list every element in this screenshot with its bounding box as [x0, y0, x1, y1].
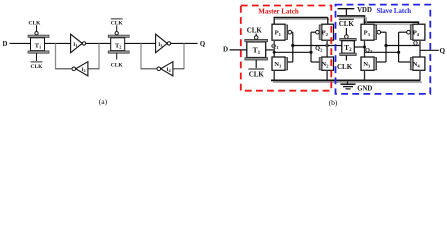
- master latch dashed border: [241, 6, 331, 91]
- wire gate line column2 (P2,N2 gates): [311, 31, 316, 33]
- wire gate line column1 (P1,N1 gates): [292, 31, 293, 33]
- wire T2b output to Q3 stem: [354, 46, 364, 48]
- wire Q1 stem (P1 drain to N1 drain): [273, 40, 275, 57]
- wire tap down to feedback loop 2 input: [183, 43, 185, 69]
- wire N4 source to ground rail: [419, 70, 421, 79]
- wire T1 to I1: [45, 42, 71, 44]
- wire node Q1 cross wire (lower, to P2/N2 gates): [274, 51, 311, 53]
- svg-text:T2: T2: [115, 43, 121, 50]
- transmission gate T2: [108, 25, 129, 59]
- wire tap down to feedback loop 1: [55, 43, 57, 69]
- svg-text:CLK: CLK: [339, 20, 355, 28]
- wire N1 source to ground rail: [273, 70, 275, 79]
- junction dot Q4-to-gates3: [384, 44, 387, 47]
- label CLKbar (T2b top): [339, 18, 354, 20]
- junction dot Q2-to-gates1: [291, 44, 294, 47]
- junction dot Q1-to-gates2: [309, 51, 312, 54]
- wire gate line column3 (P3,N3 gates): [381, 31, 386, 33]
- feedback inverter I2: [56, 62, 100, 76]
- VDD tap bar: [338, 8, 355, 10]
- label CLKbar (T1 bottom): [31, 61, 43, 63]
- feedback inverter I4: [141, 62, 184, 76]
- pmos P3: [361, 22, 381, 40]
- wire node Q2 cross wire (upper, to T2b input): [293, 45, 342, 47]
- GND rail: [273, 81, 422, 83]
- svg-text:CLK: CLK: [247, 26, 263, 34]
- wire Q2 stem (P2 drain to N2 drain): [326, 40, 328, 57]
- svg-text:I3: I3: [158, 42, 162, 48]
- svg-text:Slave Latch: Slave Latch: [376, 8, 411, 15]
- svg-text:I2: I2: [82, 67, 86, 73]
- svg-text:CLK: CLK: [29, 20, 42, 26]
- wire node Q4 cross wire (upper): [386, 45, 420, 47]
- svg-text:CLK: CLK: [249, 71, 265, 79]
- transmission gate T1: [28, 25, 49, 61]
- svg-text:CLK: CLK: [111, 63, 124, 69]
- VDD rail (slave) with jog: [337, 16, 418, 24]
- inverter I3: [156, 34, 171, 53]
- svg-text:Master Latch: Master Latch: [258, 7, 299, 15]
- svg-text:Q: Q: [440, 47, 446, 55]
- svg-text:D: D: [3, 41, 8, 48]
- svg-text:I1: I1: [73, 42, 77, 48]
- nmos N4: [410, 57, 425, 70]
- svg-text:Q: Q: [200, 41, 205, 48]
- wire gate line column4 (P4,N4 gates): [399, 31, 407, 33]
- pmos P1: [272, 18, 292, 41]
- nmos N3: [361, 57, 377, 70]
- svg-text:T1: T1: [35, 43, 41, 50]
- wire T2 to I3: [125, 42, 156, 44]
- wire tap down to feedback loop 1 input: [98, 43, 100, 69]
- svg-text:D: D: [223, 46, 228, 54]
- wire Q3 stem (P3 drain to N3 drain): [364, 40, 366, 57]
- svg-text:(a): (a): [99, 97, 108, 106]
- svg-text:CLK: CLK: [111, 21, 124, 27]
- svg-text:VDD: VDD: [357, 7, 372, 14]
- pmos P4: [407, 24, 425, 40]
- wire D to T1: [10, 42, 31, 44]
- wire I3 to Q: [171, 42, 198, 44]
- wire N3 source to ground rail: [364, 70, 366, 79]
- junction dot Q2 stem: [326, 44, 329, 47]
- label CLKbar (T2 top): [111, 18, 123, 20]
- transmission gate T2 (b): [340, 28, 356, 61]
- svg-text:I4: I4: [167, 67, 171, 73]
- ground symbol: [341, 81, 356, 89]
- wire I1 to T2: [86, 42, 111, 44]
- VDD rail (master): [276, 18, 330, 20]
- wire Q4 stem (P4 drain to N4 drain): [419, 40, 421, 57]
- wire output Q (b): [420, 49, 439, 51]
- slave latch dashed border: [336, 5, 431, 94]
- wire N2 source to ground rail: [326, 70, 328, 79]
- inverter I1: [71, 34, 86, 53]
- svg-text:CLK: CLK: [337, 63, 353, 71]
- svg-text:CLK: CLK: [31, 64, 44, 70]
- wire T1b out to node Q1 stem: [266, 49, 275, 51]
- wire node Q3 cross wire (lower, to P4/N4 gates): [365, 51, 399, 53]
- wire tap down to feedback loop 2: [140, 43, 142, 69]
- transmission gate T1 (b): [245, 34, 268, 68]
- svg-text:GND: GND: [357, 85, 372, 92]
- pmos P2: [316, 18, 334, 41]
- junction dot Q3-to-gates4: [397, 51, 400, 54]
- nmos N1: [272, 57, 288, 70]
- svg-text:(b): (b): [329, 98, 338, 107]
- label CLKbar (T1b bottom): [248, 68, 264, 70]
- wire D to T1: [230, 49, 247, 51]
- nmos N2: [319, 57, 333, 70]
